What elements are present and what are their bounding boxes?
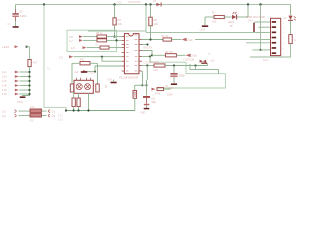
- wire LED1 to drop: [237, 16, 248, 18]
- wire pin y=44.5 stub and joint: [142, 44, 148, 46]
- svg-text:2-2: 2-2: [2, 115, 6, 118]
- svg-text:MAX: MAX: [248, 19, 253, 22]
- wire long vertical x=44 down: [43, 5, 45, 108]
- wire RB to xref: [176, 54, 185, 56]
- wire pin3 short: [255, 31, 271, 33]
- resistor RA horizontal: [163, 38, 172, 41]
- svg-text:2-3: 2-3: [59, 55, 63, 59]
- wires below resistors to bottom rail: [74, 107, 79, 111]
- xref flag bottom row: [152, 88, 156, 91]
- ground bar under R11: [81, 71, 88, 73]
- OK1 lamp circles: [76, 84, 90, 90]
- wire serial to IC: [74, 56, 122, 58]
- wire pin y=71 down: [142, 71, 144, 85]
- svg-text:1N4148: 1N4148: [150, 61, 159, 64]
- wire row A pin to resistor: [142, 39, 163, 41]
- wire right flank down: [97, 63, 99, 84]
- svg-text:2-1: 2-1: [52, 110, 56, 113]
- svg-text:ZUM DC/DC: ZUM DC/DC: [128, 2, 141, 4]
- connector SV1 box: [271, 18, 281, 55]
- wire R10 down the label column: [23, 67, 30, 97]
- wire LED2 to R8: [290, 21, 292, 35]
- ground below C1: [13, 26, 19, 28]
- svg-text:R3 1k: R3 1k: [96, 32, 103, 35]
- svg-text:G: G: [8, 22, 10, 26]
- svg-text:1k: 1k: [95, 43, 98, 46]
- junction cap C4: [173, 64, 175, 66]
- xref arrow row A: [182, 38, 186, 41]
- svg-text:1: 1: [283, 22, 285, 24]
- crystal Q1: [133, 91, 137, 99]
- svg-text:C1: C1: [19, 9, 23, 13]
- wire down to C5: [146, 85, 148, 96]
- wire RA to xref: [172, 39, 182, 41]
- svg-text:R2: R2: [118, 18, 122, 22]
- svg-text:10k: 10k: [118, 22, 123, 26]
- label row gate net: [83, 70, 87, 73]
- resistor R16: [30, 109, 42, 112]
- svg-text:RB1/RX: RB1/RX: [144, 46, 153, 49]
- wire row B to resistor: [152, 54, 165, 56]
- wire R2 bottom to pin row: [114, 25, 116, 37]
- svg-text:gn: gn: [230, 24, 233, 27]
- wire drop x=248: [247, 5, 249, 18]
- capacitor C4: [168, 66, 185, 90]
- junction (150.5,39.5): [149, 38, 151, 40]
- IC U1 interior pin name marks: [126, 35, 137, 71]
- svg-text:100n: 100n: [179, 73, 185, 77]
- junction at (260.5,49.9): [259, 49, 261, 51]
- connector pin numbers: [283, 22, 285, 55]
- svg-text:SV1: SV1: [263, 58, 268, 62]
- triac T1: [183, 58, 215, 63]
- svg-text:230V: 230V: [167, 94, 173, 97]
- resistor R8 vertical: [289, 35, 292, 44]
- resistor R2 vertical: [113, 18, 116, 25]
- svg-text:R0 47k: R0 47k: [165, 51, 174, 54]
- svg-text:1-5>: 1-5>: [2, 89, 8, 92]
- resistor R10 vertical: [28, 60, 31, 67]
- wire upper net across frame top: [88, 31, 146, 32]
- resistor R17: [30, 114, 42, 117]
- diode D1 on rail: [153, 0, 161, 6]
- svg-text:GND: GND: [107, 79, 112, 81]
- svg-text:D2: D2: [284, 18, 288, 20]
- svg-text:2-2: 2-2: [52, 115, 56, 118]
- wire x=146 down to long net: [145, 5, 147, 33]
- wire corner down to pin y=61.2: [102, 57, 122, 62]
- xref curly arrows left: [15, 110, 17, 118]
- svg-text:GND: GND: [17, 100, 23, 104]
- ground bar mid: [111, 82, 117, 84]
- wire pin1: [255, 21, 271, 23]
- svg-text:GND: GND: [200, 29, 206, 32]
- svg-text:2-2: 2-2: [47, 68, 51, 71]
- resistor R14 below: [77, 98, 80, 107]
- wire drop to R2: [114, 5, 116, 18]
- svg-text:2: 2: [283, 28, 285, 30]
- svg-text:R5: R5: [154, 18, 158, 22]
- optocoupler OK1 box: [74, 80, 93, 93]
- svg-text:1-4>: 1-4>: [2, 85, 8, 88]
- wire R7 to LED1: [224, 16, 231, 18]
- svg-text:22p: 22p: [152, 100, 157, 104]
- svg-text:1-2>: 1-2>: [2, 76, 8, 79]
- svg-text:1M: 1M: [165, 86, 168, 88]
- svg-text:4: 4: [283, 38, 285, 40]
- wire drop x=260.5 to connector net: [260, 5, 262, 50]
- OK1 top pin stubs: [77, 78, 91, 81]
- resistor R5 vertical: [149, 17, 152, 26]
- svg-text:R17: R17: [30, 119, 35, 122]
- svg-text:100n: 100n: [20, 14, 27, 18]
- svg-text:10k: 10k: [104, 85, 107, 90]
- resistor R6 horizontal: [154, 64, 165, 67]
- junction rail x=260.5: [259, 3, 261, 5]
- wire rail corner to LED2: [290, 5, 292, 16]
- svg-text:1-1>: 1-1>: [2, 71, 8, 74]
- wire y=85.3 horizontal: [135, 84, 148, 86]
- wire up to pin y=66: [95, 66, 122, 72]
- wire OK1 bottom left pin: [78, 93, 80, 98]
- LED LED2 vertical: [284, 16, 296, 21]
- svg-text:1-7: 1-7: [69, 39, 73, 43]
- wire triac MT down and around: [190, 64, 219, 74]
- connector SV1 pins: [272, 21, 276, 54]
- resistor R3: [97, 35, 107, 38]
- wire staircase pin y=50.5 to row B: [142, 51, 152, 56]
- junctions on bottom rail: [65, 109, 67, 111]
- wire resistor net pin y=65.5: [142, 65, 154, 67]
- svg-text:470k: 470k: [155, 93, 161, 96]
- svg-text:R1 1k: R1 1k: [162, 35, 169, 38]
- left xref rows: [2, 71, 8, 96]
- wire mid into pin5: [246, 42, 271, 44]
- capacitor C1: [12, 13, 18, 15]
- junction rail x=248: [247, 3, 249, 5]
- junction on rail at x=44: [43, 3, 45, 5]
- svg-text:1-6>: 1-6>: [2, 93, 8, 96]
- svg-text:4k7: 4k7: [33, 61, 38, 64]
- wire row A continues to connector: [195, 39, 271, 41]
- svg-text:T1: T1: [208, 53, 211, 56]
- svg-text:1-6: 1-6: [69, 35, 73, 39]
- svg-text:600: 600: [211, 59, 216, 62]
- IC U1 left pin stubs: [122, 37, 125, 71]
- svg-text:1k: 1k: [294, 40, 297, 42]
- wire drop to R5: [150, 5, 152, 18]
- wire R9 to IC: [109, 47, 122, 49]
- opto input resistor R11 horizontal: [80, 62, 90, 65]
- wire pin y=56.5 with corner down: [142, 56, 150, 58]
- svg-text:10k: 10k: [154, 22, 159, 26]
- resistor R15 below: [72, 98, 75, 107]
- svg-text:PIC16F628-04P: PIC16F628-04P: [119, 75, 138, 79]
- xref arrow row B: [186, 54, 190, 57]
- wire R4 to IC: [107, 39, 122, 41]
- wire into pin6: [253, 49, 271, 51]
- LED LED1: [228, 12, 237, 28]
- wire C1 top drop: [15, 5, 17, 10]
- svg-text:6: 6: [283, 48, 285, 50]
- wire bottom rail y=110.5: [66, 110, 135, 112]
- svg-text:D1: D1: [153, 0, 157, 3]
- wire light path A: [150, 62, 225, 88]
- wire corner into bottom rail: [44, 107, 66, 110]
- resistor R7 horizontal: [214, 15, 224, 18]
- junction rail x=114.5: [113, 3, 115, 5]
- svg-text:GND VCC RXD: GND VCC RXD: [246, 15, 265, 19]
- wire R5 bottom to row A: [150, 26, 152, 40]
- wire +12 to R10: [27, 47, 30, 60]
- svg-text:T1 BT136: T1 BT136: [183, 58, 195, 61]
- svg-text:1-12: 1-12: [58, 118, 63, 121]
- resistor R9: [100, 46, 109, 49]
- wire OK1 bottom right pin to rail: [88, 93, 90, 110]
- resistor R18: [157, 88, 164, 91]
- svg-text:1-5: 1-5: [71, 46, 75, 50]
- junction x=195.5: [194, 64, 196, 66]
- svg-text:2-1: 2-1: [2, 110, 6, 113]
- wire R3 to IC: [107, 36, 122, 38]
- svg-text:C5: C5: [152, 96, 156, 100]
- wire left flank down: [71, 63, 73, 84]
- svg-text:GND: GND: [140, 112, 146, 115]
- wire crystal net vertical: [146, 66, 149, 86]
- junction at (114.5,36.6): [113, 36, 115, 38]
- ground for label column: [20, 96, 26, 98]
- capacitor C5 polarized: [143, 96, 150, 98]
- wire R8 down and left under connector: [250, 44, 291, 57]
- wire long net top to connector: [146, 31, 271, 33]
- svg-text:2-1k: 2-1k: [188, 38, 194, 42]
- svg-text:5: 5: [283, 43, 285, 45]
- junction rail x=146: [145, 3, 147, 5]
- IC U1 right pin stubs: [139, 40, 142, 72]
- wire down to crystal Q1: [134, 85, 136, 90]
- resistor R4: [97, 39, 107, 42]
- svg-text:1k5: 1k5: [212, 19, 217, 23]
- wires into R16/R17: [19, 111, 31, 116]
- ground for LED resistor: [204, 17, 206, 25]
- xref curly arrows right: [48, 110, 50, 118]
- frame group box (light green) around input labels: [67, 30, 117, 51]
- wires out right: [42, 111, 47, 116]
- svg-text:VCC: VCC: [117, 1, 122, 4]
- ground below C5: [146, 105, 148, 108]
- svg-text:R7: R7: [212, 11, 216, 15]
- svg-text:2.2k: 2.2k: [153, 69, 158, 72]
- resistor RB horizontal: [165, 54, 176, 57]
- wire C1 bottom: [15, 17, 17, 21]
- svg-text:7: 7: [283, 54, 285, 56]
- diode D3 vertical dark bar: [253, 23, 255, 33]
- svg-text:2-4: 2-4: [75, 70, 79, 74]
- wires R11 sides: [72, 62, 98, 64]
- svg-text:2-1k: 2-1k: [192, 54, 198, 58]
- svg-text:1-11: 1-11: [58, 114, 63, 117]
- IC U1 body: [124, 34, 139, 74]
- resistor R12 vertical left: [70, 84, 73, 92]
- svg-text:GND: GND: [89, 71, 95, 74]
- wire top supply rail: [16, 4, 291, 6]
- wire gnd to R7: [205, 16, 214, 18]
- svg-text:3: 3: [283, 33, 285, 35]
- wire R6 right to triac gate: [165, 64, 208, 66]
- svg-text:+12V: +12V: [2, 45, 9, 49]
- wire pin2: [259, 26, 271, 28]
- wire crystal to bottom rail: [134, 98, 136, 110]
- junction rail x=150.5: [149, 3, 151, 5]
- svg-text:R16: R16: [30, 106, 35, 109]
- svg-text:R11: R11: [80, 58, 85, 61]
- resistor R13 vertical right: [96, 84, 99, 92]
- svg-text:1-3>: 1-3>: [2, 80, 8, 83]
